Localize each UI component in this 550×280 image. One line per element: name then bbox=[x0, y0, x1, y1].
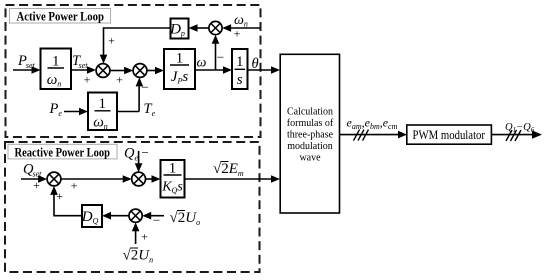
plus sign S2 left input bbox=[116, 73, 123, 87]
wire calculation block to PWM modulator bbox=[340, 131, 408, 139]
wire √2Uo into S6 bbox=[142, 212, 164, 220]
label √2Un bbox=[123, 248, 154, 265]
wire Dp to S1 (left then down) bbox=[100, 28, 171, 64]
wire S3 to Dp bbox=[189, 24, 209, 32]
label P_set bbox=[17, 53, 36, 70]
wire Pe input bbox=[64, 108, 88, 116]
svg-text:−: − bbox=[141, 80, 148, 95]
minus sign S6 right input bbox=[153, 213, 160, 228]
label P_e bbox=[49, 101, 63, 118]
svg-text:1: 1 bbox=[52, 54, 60, 70]
svg-text:+: + bbox=[56, 189, 63, 203]
label ω_n bbox=[234, 13, 248, 29]
reactive power loop dashed box bbox=[5, 142, 260, 272]
wire S1 to S2 bbox=[110, 67, 133, 75]
block DQ bbox=[81, 205, 102, 227]
block B1 1/ωn bbox=[41, 49, 72, 90]
active power loop title box bbox=[10, 9, 111, 24]
plus sign S1 top input bbox=[108, 34, 115, 48]
active power loop dashed box bbox=[6, 5, 261, 137]
gate bus slash marks bbox=[506, 130, 521, 141]
label e_am e_bm e_cm bbox=[347, 116, 398, 132]
summing junction S4 bbox=[47, 172, 61, 186]
label √2Uo bbox=[170, 210, 201, 227]
label T_set bbox=[72, 53, 88, 70]
wire Qe into S5 bbox=[135, 151, 143, 172]
wire S4 to S5 bbox=[61, 175, 132, 183]
summing junction S3 (top) bbox=[209, 21, 222, 34]
svg-text:−: − bbox=[141, 145, 148, 160]
wire PWM output bbox=[491, 130, 542, 138]
svg-text:wave: wave bbox=[299, 153, 321, 164]
plus sign S1 left input bbox=[84, 73, 91, 87]
summing junction S5 bbox=[132, 172, 146, 186]
block B6 1/KQs bbox=[161, 160, 185, 198]
label Q_set bbox=[23, 162, 42, 179]
wire B1 to summing junction S1 bbox=[71, 66, 96, 74]
svg-text:+: + bbox=[116, 73, 123, 87]
wire S5 to B6 bbox=[146, 175, 161, 183]
svg-text:modulation: modulation bbox=[287, 141, 333, 152]
three-phase bus slash marks bbox=[354, 130, 369, 141]
svg-text:Calculation: Calculation bbox=[287, 107, 333, 118]
svg-text:+: + bbox=[108, 34, 115, 48]
wire B3 to B4 (with branch node) bbox=[195, 66, 232, 74]
minus sign S5 top input bbox=[141, 145, 148, 160]
plus sign S4 bottom input bbox=[56, 189, 63, 203]
svg-text:ω: ω bbox=[197, 56, 207, 71]
svg-text:PWM modulator: PWM modulator bbox=[413, 128, 486, 142]
block B4 1/s bbox=[232, 49, 248, 89]
plus sign S3 right input bbox=[234, 27, 241, 41]
summing junction S6 bbox=[129, 209, 142, 222]
plus sign S6 bottom input bbox=[141, 230, 148, 244]
wire √2Un into S6 bbox=[132, 222, 140, 244]
svg-text:−: − bbox=[217, 50, 224, 65]
svg-text:Reactive Power Loop: Reactive Power Loop bbox=[15, 145, 111, 160]
summing junction S2 bbox=[133, 64, 147, 78]
wire Qset input bbox=[21, 175, 47, 183]
block B3 1/JPs bbox=[164, 49, 195, 89]
plus sign S5 left input bbox=[71, 179, 78, 193]
summing junction S1 bbox=[96, 64, 110, 78]
wire S6 to DQ bbox=[102, 212, 129, 220]
reactive power loop title box bbox=[8, 144, 117, 159]
svg-text:formulas of: formulas of bbox=[287, 118, 334, 129]
wire Pset input bbox=[13, 66, 41, 74]
svg-text:+: + bbox=[33, 178, 40, 192]
label Q1-Q6 bbox=[505, 122, 535, 134]
svg-text:1: 1 bbox=[176, 51, 184, 67]
svg-text:+: + bbox=[141, 230, 148, 244]
svg-text:+: + bbox=[71, 179, 78, 193]
label θ bbox=[252, 56, 259, 72]
svg-text:+: + bbox=[234, 27, 241, 41]
block B2 1/ωn bbox=[88, 93, 117, 132]
svg-text:1: 1 bbox=[169, 161, 177, 177]
wire ωn input to S3 bbox=[222, 24, 260, 32]
svg-text:s: s bbox=[237, 72, 243, 88]
block PWM modulator bbox=[407, 125, 492, 144]
wire ω feedback up to S3 bbox=[212, 35, 220, 70]
label T_e bbox=[144, 101, 156, 118]
svg-text:√2Uo: √2Uo bbox=[170, 210, 201, 227]
svg-text:Active Power Loop: Active Power Loop bbox=[17, 9, 105, 24]
wire DQ to S4 (left then up) bbox=[50, 186, 82, 216]
wire S2 to B3 bbox=[147, 67, 164, 75]
label √2Em bbox=[213, 161, 244, 178]
plus sign S4 left input bbox=[33, 178, 40, 192]
svg-text:+: + bbox=[84, 73, 91, 87]
svg-text:−: − bbox=[153, 213, 160, 228]
wire B2 to S2 (up into junction) bbox=[117, 77, 143, 111]
svg-text:1: 1 bbox=[236, 54, 244, 70]
svg-text:1: 1 bbox=[99, 96, 107, 112]
minus sign S3 bottom input bbox=[217, 50, 224, 65]
wire θ to calculation block bbox=[248, 66, 281, 74]
label Q_e bbox=[124, 146, 138, 163]
label ω bbox=[197, 56, 207, 71]
minus sign S2 bottom input bbox=[141, 80, 148, 95]
block Dp bbox=[169, 19, 188, 39]
svg-text:three-phase: three-phase bbox=[287, 130, 334, 141]
wire B6 to calculation block bbox=[185, 175, 281, 183]
calculation formulas block bbox=[280, 54, 339, 213]
svg-text:√2Un: √2Un bbox=[123, 248, 154, 265]
